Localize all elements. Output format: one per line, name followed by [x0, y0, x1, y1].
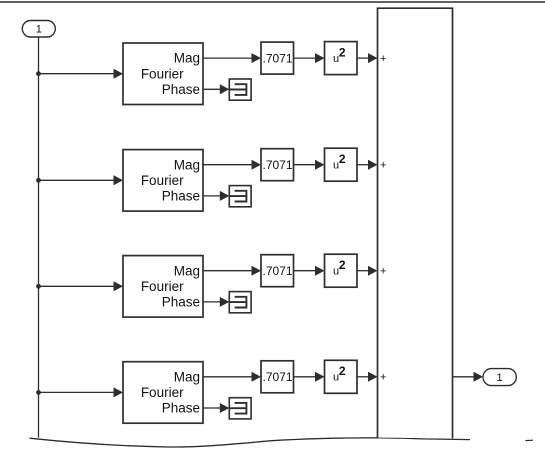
svg-text:Fourier: Fourier [141, 279, 184, 294]
svg-text:Fourier: Fourier [141, 173, 184, 188]
svg-text:Mag: Mag [174, 157, 200, 172]
svg-text:+: + [380, 53, 386, 65]
svg-text:1: 1 [497, 372, 503, 384]
svg-text:Phase: Phase [162, 189, 200, 204]
svg-text:1: 1 [36, 23, 42, 35]
svg-text:Phase: Phase [162, 82, 200, 97]
svg-text:Fourier: Fourier [141, 66, 184, 81]
svg-text:2: 2 [339, 258, 346, 272]
svg-text:Phase: Phase [162, 295, 200, 310]
svg-text:Mag: Mag [174, 51, 200, 66]
svg-text:Mag: Mag [174, 369, 200, 384]
svg-text:+: + [380, 266, 386, 278]
svg-text:+: + [380, 160, 386, 172]
svg-text:+: + [380, 372, 386, 384]
svg-text:2: 2 [339, 364, 346, 378]
svg-text:Mag: Mag [174, 263, 200, 278]
svg-text:2: 2 [339, 45, 346, 59]
svg-text:2: 2 [339, 152, 346, 166]
svg-text:Phase: Phase [162, 401, 200, 416]
svg-text:Fourier: Fourier [141, 385, 184, 400]
